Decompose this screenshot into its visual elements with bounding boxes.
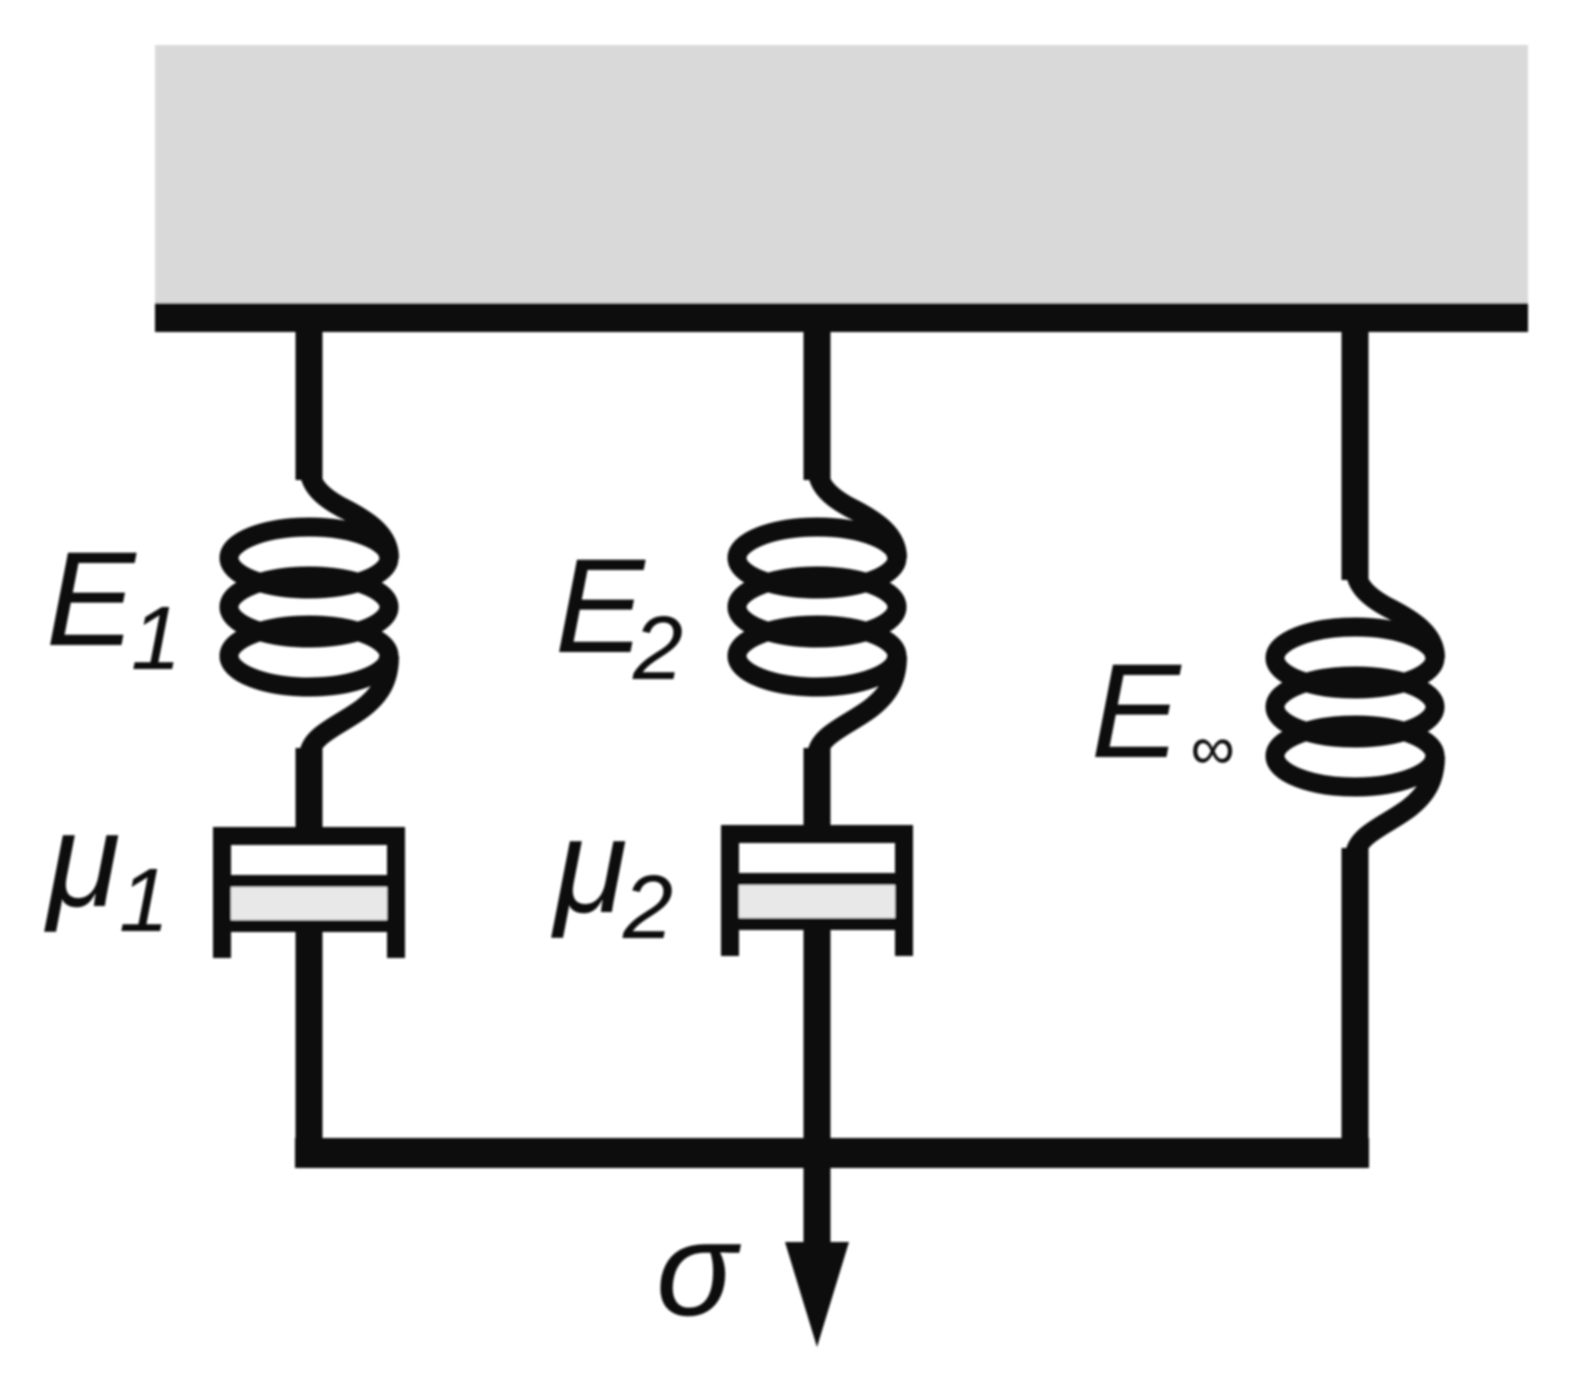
dashpot μ2 <box>721 825 913 956</box>
dashpot μ1 <box>213 827 405 958</box>
svg-text:μ: μ <box>551 792 627 941</box>
svg-text:1: 1 <box>119 851 169 951</box>
wire branch1 mid <box>296 748 323 830</box>
spring E∞ <box>1275 565 1435 857</box>
wire branch3 bottom <box>1342 848 1369 1160</box>
svg-text:μ: μ <box>44 786 120 935</box>
wire branch1 top <box>296 320 323 480</box>
arrowhead of stress arrow σ <box>785 1242 849 1347</box>
spring E2 <box>737 465 897 757</box>
bottom rigid bar <box>295 1138 1369 1168</box>
top rigid bar <box>155 303 1528 332</box>
svg-text:E: E <box>46 525 137 674</box>
fixed support block (hatched wall) <box>155 45 1528 303</box>
wire branch2 mid <box>804 748 831 828</box>
svg-text:2: 2 <box>622 858 673 958</box>
svg-text:1: 1 <box>131 589 181 689</box>
wire branch2 top <box>804 320 831 480</box>
svg-text:E: E <box>1091 637 1182 786</box>
wire branch3 top <box>1342 320 1369 580</box>
spring E1 <box>229 465 389 757</box>
svg-text:∞: ∞ <box>1190 714 1234 783</box>
svg-text:σ: σ <box>656 1195 741 1344</box>
wire branch1 bottom <box>296 932 323 1160</box>
wire branch2 lower / stress arrow shaft σ <box>804 930 831 1260</box>
svg-text:2: 2 <box>632 599 683 699</box>
